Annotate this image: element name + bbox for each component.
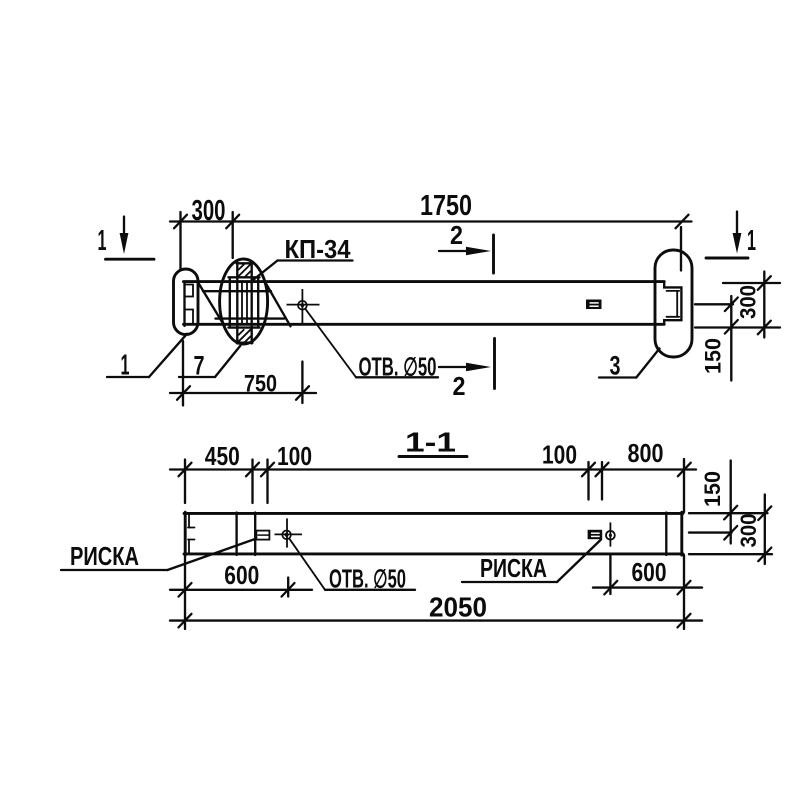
- svg-text:300: 300: [736, 514, 761, 548]
- dimension 300 (top view right): [736, 272, 771, 338]
- extension line x=681: [680, 227, 682, 271]
- tick x=185: [179, 463, 192, 477]
- svg-text:150: 150: [700, 471, 725, 507]
- svg-text:ОТВ. ∅50: ОТВ. ∅50: [329, 566, 406, 594]
- svg-text:800: 800: [628, 438, 664, 468]
- tick x=252.5: [246, 463, 259, 477]
- svg-text:2: 2: [453, 371, 466, 401]
- label КП-34: [251, 236, 353, 282]
- extension line x=180.5: [179, 212, 181, 270]
- right end bracket outer: [664, 282, 681, 325]
- bar divider x=236.6: [235, 513, 237, 556]
- hole Ø50 (top view) centerlines: [301, 289, 303, 326]
- bar divider x=255.2: [254, 513, 256, 556]
- svg-text:150: 150: [701, 338, 726, 374]
- label 1 (left end leader): [107, 334, 187, 382]
- svg-text:1-1: 1-1: [405, 427, 456, 458]
- extension line beam top (right): [723, 282, 780, 284]
- dimension 2050: [170, 592, 702, 628]
- tick x=602: [596, 463, 609, 477]
- dimension 600 (section left): [170, 560, 312, 597]
- svg-text:3: 3: [610, 350, 621, 380]
- tick x=684.3: [678, 463, 691, 477]
- extension line bar top (section right): [689, 512, 768, 514]
- scribe mark rect (section right): [588, 530, 603, 539]
- svg-text:РИСКА: РИСКА: [70, 541, 139, 571]
- section mark 1 (right): arrow: [706, 212, 748, 259]
- leader ОТВ. Ø50 (top view): [305, 309, 438, 382]
- right end capsule (pos.3 detail): [655, 250, 692, 357]
- dimension 150 (top view right): [701, 296, 738, 381]
- tick x=588.5: [582, 463, 595, 477]
- svg-text:450: 450: [205, 441, 240, 471]
- left end bracket (section): [188, 514, 195, 554]
- tick at x=682: [676, 215, 689, 229]
- left end bracket inside capsule: [185, 282, 194, 326]
- svg-text:1750: 1750: [420, 190, 472, 222]
- hole Ø50 (top view) circle: [298, 301, 307, 310]
- cross bar (КП-34 post) vertical edges: [237, 263, 253, 344]
- scribe mark rect (section left): [256, 531, 269, 540]
- tick at x=232.7: [226, 215, 239, 229]
- gusset top edge: [203, 290, 271, 292]
- extension line beam axis (right): [695, 303, 733, 305]
- extension line x=232.7: [232, 212, 234, 258]
- section mark 1 (left): arrow: [106, 217, 155, 260]
- svg-text:2050: 2050: [429, 592, 487, 623]
- label РИСКА (left): [61, 539, 256, 571]
- long extension x=684 (below bar): [683, 555, 685, 629]
- hole Ø50 (section) circle: [282, 531, 291, 540]
- long extension x=684 (above bar): [683, 459, 685, 512]
- dimension line (top, 300 / 1750): [170, 220, 692, 222]
- detail ellipse (node 7): [220, 259, 268, 344]
- dimension line (450/100 ... 100/800): [170, 468, 696, 470]
- svg-text:600: 600: [224, 560, 259, 590]
- dimension 600 (section right): [593, 556, 702, 595]
- beam bottom edge: [184, 323, 665, 326]
- svg-text:1: 1: [98, 225, 107, 257]
- title 1-1: [399, 427, 467, 458]
- svg-text:2: 2: [450, 220, 463, 250]
- tick x=267.5: [261, 463, 274, 477]
- svg-text:РИСКА: РИСКА: [480, 553, 547, 583]
- leader ОТВ. Ø50 (section): [290, 539, 415, 593]
- label 3 (right end leader): [599, 349, 660, 381]
- hole Ø50 (section) centerlines: [286, 518, 288, 547]
- small circle mark (section right): [606, 522, 615, 546]
- beam top edge: [184, 280, 665, 283]
- dimension 300 (section right): [736, 495, 771, 565]
- svg-text:1: 1: [747, 225, 756, 257]
- tick at x=180.5: [174, 215, 187, 229]
- extension line bar axis (section right): [689, 531, 732, 533]
- extension x=185 below bar: [184, 555, 186, 629]
- svg-text:100: 100: [542, 440, 577, 470]
- extension line beam bottom (right): [695, 326, 780, 328]
- bar divider x=666.3: [665, 513, 667, 556]
- svg-text:600: 600: [632, 557, 667, 587]
- extension stubs above bar: [184, 460, 186, 504]
- svg-text:100: 100: [277, 441, 312, 471]
- section mark 2 (bottom): [439, 339, 495, 402]
- dimension 150 (section right): [700, 461, 737, 544]
- svg-text:300: 300: [736, 285, 761, 319]
- gusset bottom edge: [216, 317, 285, 319]
- cross bar hatching: [238, 264, 251, 342]
- label 7 (detail leader): [179, 346, 241, 381]
- svg-text:300: 300: [192, 195, 226, 227]
- fixing plate mark (top view): [586, 300, 602, 310]
- bar outline (section): [184, 512, 683, 555]
- svg-text:750: 750: [244, 371, 277, 398]
- collar plate around bar: [229, 277, 260, 327]
- dimension 750: [170, 341, 316, 406]
- section mark 2 (top): [439, 220, 494, 273]
- right end bracket inner: [667, 291, 680, 317]
- left end capsule (pos.1 detail): [174, 269, 199, 335]
- gusset parallelogram right diagonal: [265, 281, 291, 326]
- svg-text:ОТВ. ∅50: ОТВ. ∅50: [359, 353, 437, 381]
- gusset parallelogram left diagonal: [198, 282, 225, 327]
- label РИСКА (right): [462, 540, 601, 584]
- extension line bar bottom (section right): [689, 553, 772, 555]
